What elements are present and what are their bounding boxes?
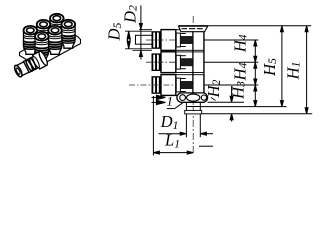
svg-text:1: 1	[167, 94, 174, 109]
